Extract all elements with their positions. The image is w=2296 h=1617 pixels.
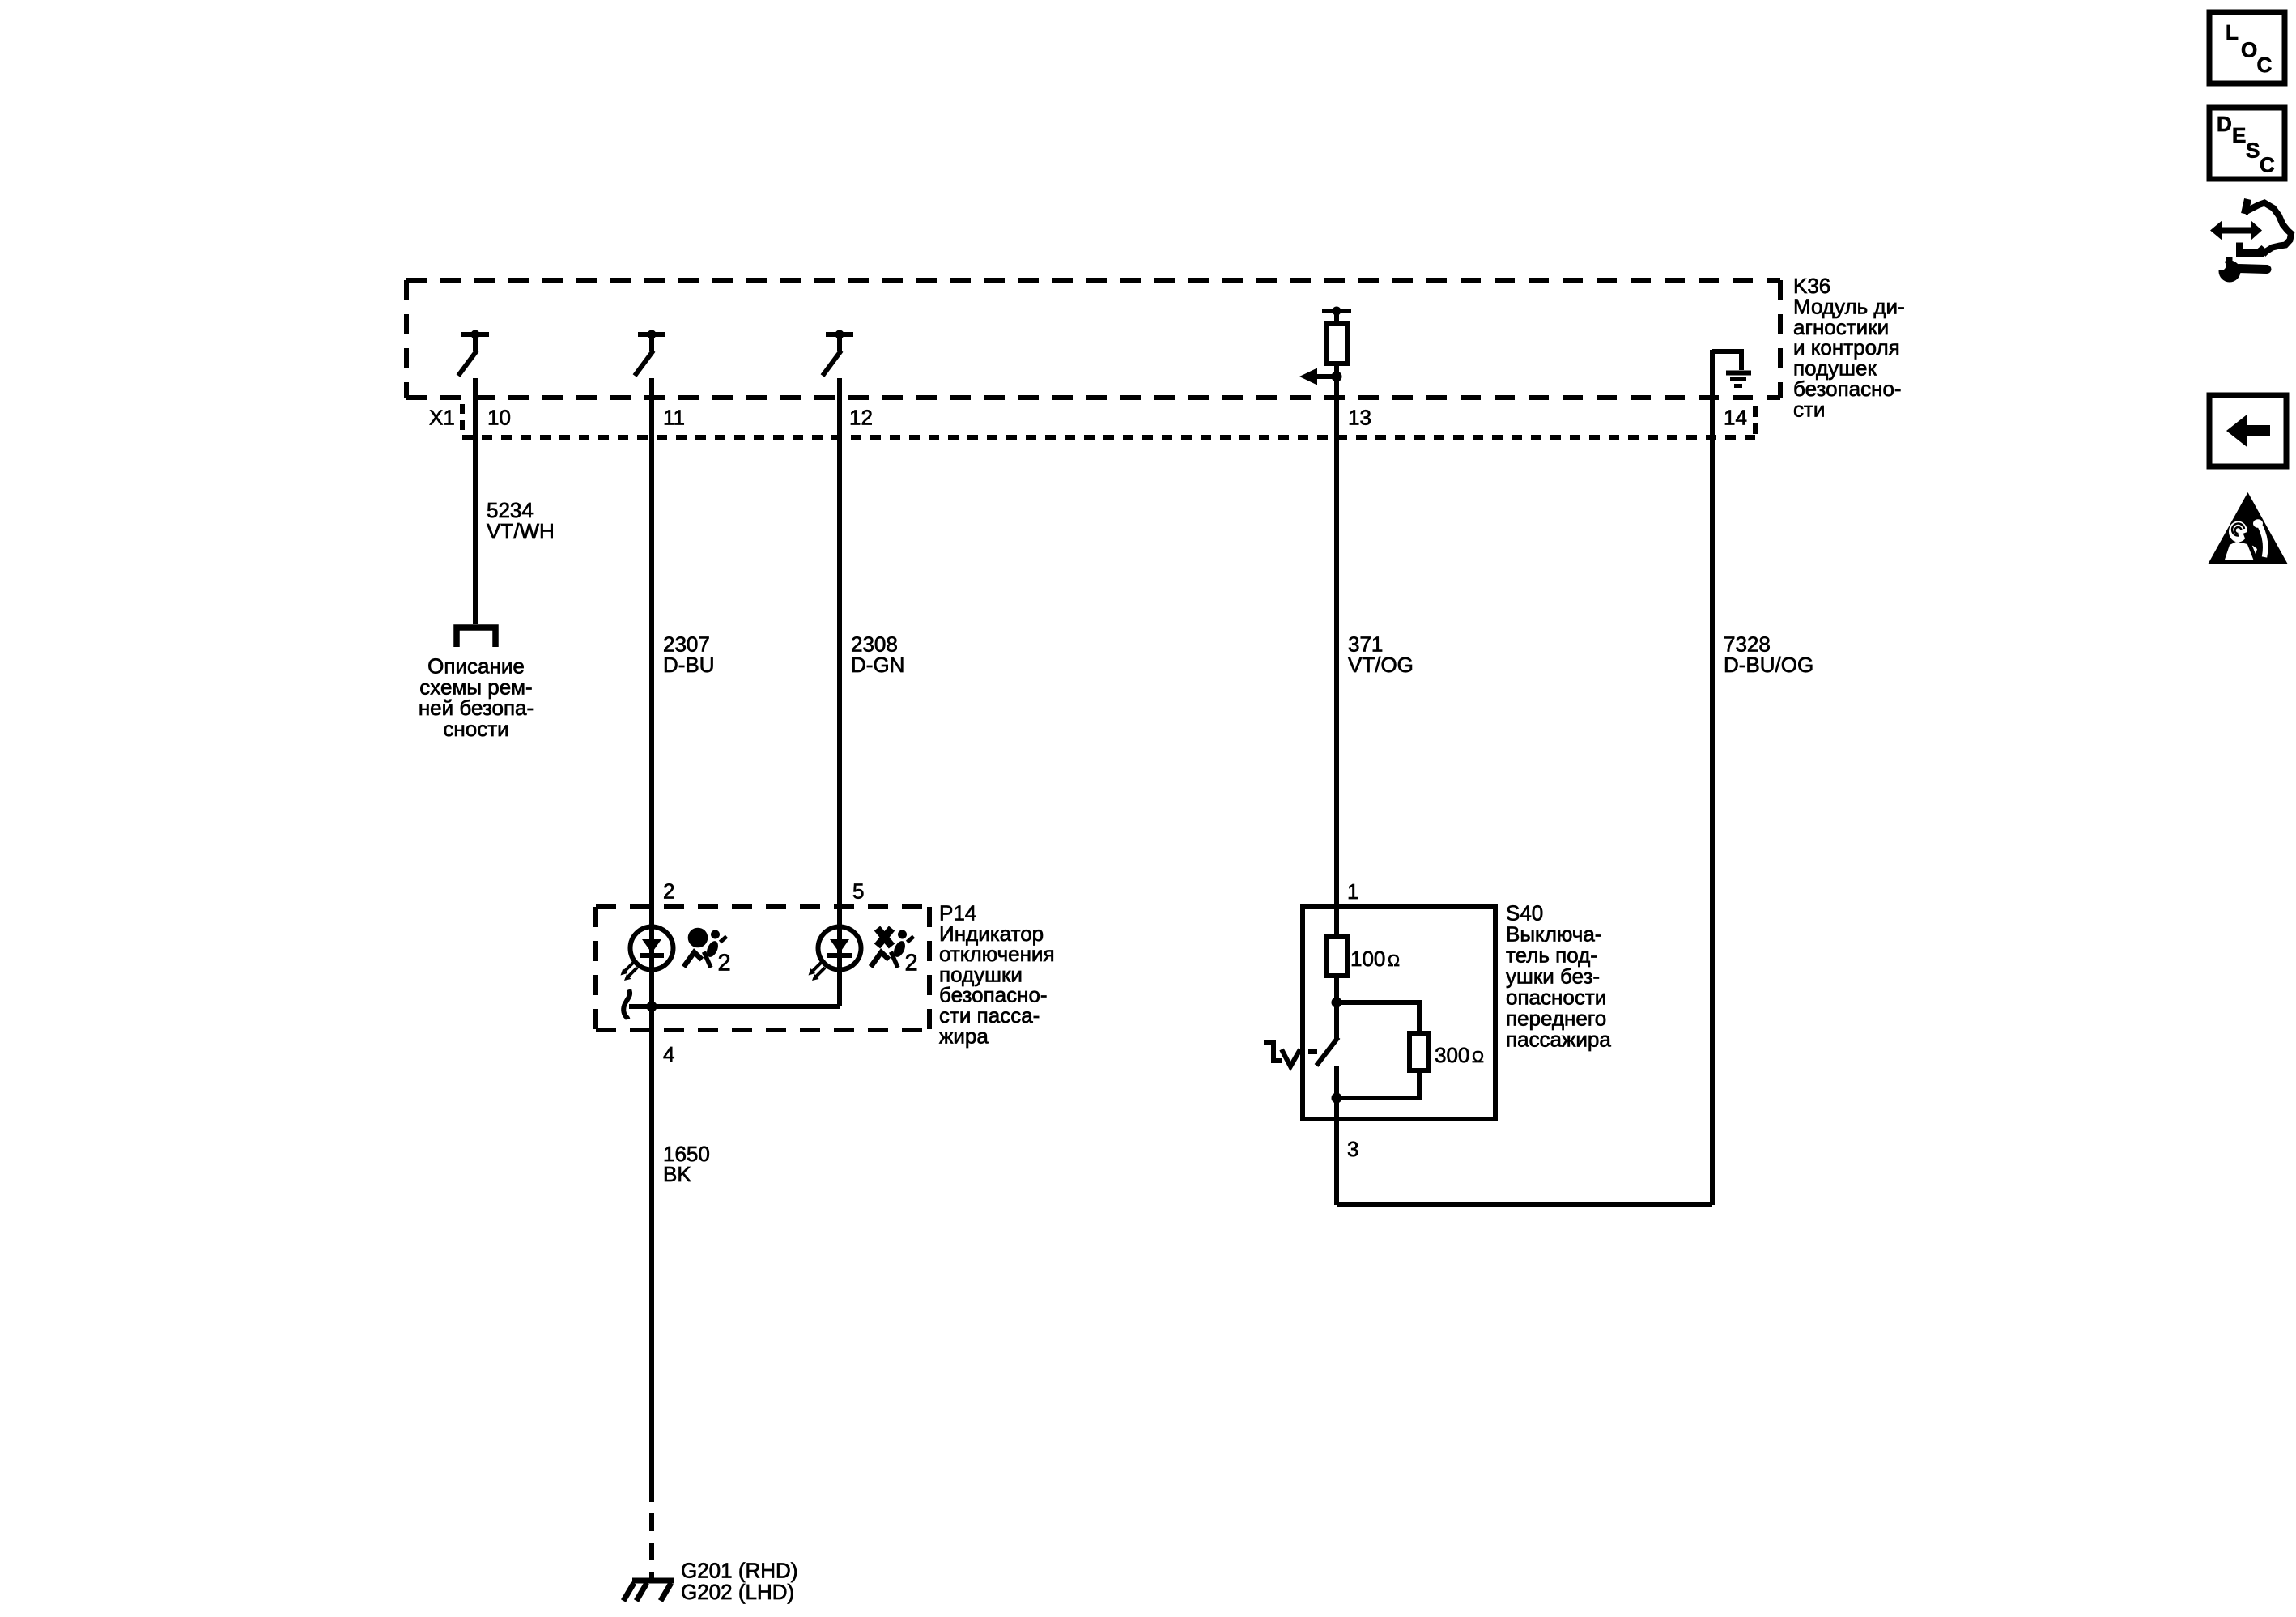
- svg-text:пассажира: пассажира: [1506, 1028, 1611, 1052]
- svg-text:Ω: Ω: [1388, 952, 1400, 970]
- svg-text:2: 2: [905, 951, 918, 977]
- wire P14 pin 4 to ground: [649, 1006, 654, 1502]
- svg-text:2: 2: [718, 951, 731, 977]
- svg-text:сти: сти: [1793, 397, 1825, 421]
- wire junction bus inside P14: [629, 1004, 840, 1009]
- icon LOC box: [2209, 12, 2285, 83]
- label wire 5234 VT/WH: [487, 498, 555, 543]
- K36 internal switch pin 11: [635, 330, 665, 377]
- wire 100 ohm to junction: [1334, 976, 1339, 1002]
- svg-text:D: D: [2217, 112, 2232, 136]
- module K36 dashed box: [406, 280, 1780, 398]
- label P14 description: [939, 901, 1055, 1049]
- LED lamp 2 in P14: [809, 927, 861, 981]
- svg-text:1: 1: [1347, 879, 1358, 904]
- label wire 2308 D-GN: [851, 632, 904, 678]
- label wire 1650 BK: [663, 1142, 710, 1186]
- icon airbag warning triangle: [2208, 492, 2288, 564]
- label wire 2307 D-BU: [663, 632, 715, 678]
- svg-text:3: 3: [1347, 1137, 1358, 1161]
- airbag pictograph 1: [684, 928, 731, 977]
- airbag pictograph 2 crossed out: [871, 929, 918, 977]
- label K36 description: [1793, 274, 1905, 421]
- svg-text:2: 2: [663, 879, 674, 904]
- svg-text:O: O: [2241, 38, 2257, 62]
- wire pin11 to LED P14 pin 2: [649, 378, 654, 1006]
- svg-text:L: L: [2226, 20, 2239, 45]
- svg-text:300: 300: [1435, 1043, 1469, 1067]
- label 100 ohm: [1350, 947, 1400, 971]
- node junction dot upper S40: [1332, 998, 1342, 1008]
- K36 internal ground symbol on pin 14: [1712, 351, 1751, 386]
- ground symbol G201/G202: [623, 1581, 674, 1601]
- pin number labels: [487, 406, 1747, 430]
- wire 300 ohm return to lower junction: [1337, 1070, 1419, 1098]
- manual actuator symbol of S40: [1264, 1042, 1300, 1066]
- svg-text:VT/OG: VT/OG: [1348, 653, 1414, 677]
- svg-text:100: 100: [1350, 947, 1385, 971]
- svg-text:10: 10: [487, 406, 511, 430]
- svg-text:X1: X1: [429, 406, 455, 430]
- svg-text:5: 5: [852, 879, 864, 904]
- icon back arrow box: [2209, 395, 2286, 466]
- node junction dot lower S40: [1332, 1093, 1342, 1104]
- K36 internal switch pin 12: [823, 330, 853, 377]
- svg-text:C: C: [2257, 53, 2273, 77]
- svg-text:D-BU: D-BU: [663, 653, 715, 677]
- svg-text:G201 (RHD): G201 (RHD): [681, 1558, 797, 1582]
- svg-text:11: 11: [663, 406, 685, 430]
- svg-text:D-GN: D-GN: [851, 653, 904, 677]
- icon service wrench: [2217, 257, 2268, 283]
- K36 internal resistor on pin 13: [1322, 307, 1351, 364]
- label S40 description: [1506, 901, 1611, 1052]
- svg-text:S: S: [2246, 138, 2260, 163]
- label ground G201 (RHD) G202 (LHD): [681, 1558, 797, 1604]
- wire pin13 to S40 pin 1: [1334, 364, 1339, 937]
- resistor 100 ohm in S40: [1327, 937, 1347, 976]
- resistor 300 ohm in S40: [1409, 1033, 1429, 1070]
- label wire 371 VT/OG: [1348, 632, 1414, 678]
- wire bottom loop to pin 14: [1337, 1202, 1712, 1207]
- wire pin10 to seat belt reference: [473, 378, 478, 624]
- icon service band bottom bar: [2236, 243, 2265, 257]
- icon service double arrow: [2210, 220, 2262, 240]
- K36 internal switch pin 10: [458, 330, 489, 377]
- wire S40 pin 3 down: [1334, 1098, 1339, 1205]
- wire branch to 300 ohm: [1337, 1002, 1419, 1033]
- dashed wire continuation to ground: [649, 1513, 654, 1581]
- svg-text:14: 14: [1724, 406, 1747, 430]
- node junction with left arrow on pin 13: [1299, 368, 1342, 385]
- svg-text:VT/WH: VT/WH: [487, 519, 555, 543]
- curl symbol at P14 junction: [623, 989, 630, 1019]
- svg-text:BK: BK: [663, 1162, 691, 1186]
- switch contact in S40: [1308, 1002, 1338, 1098]
- svg-text:сности: сности: [443, 717, 508, 741]
- svg-text:D-BU/OG: D-BU/OG: [1724, 653, 1813, 677]
- svg-text:12: 12: [849, 406, 873, 430]
- connector X1 dotted line: [462, 404, 1755, 439]
- indicator P14 dashed box: [596, 907, 929, 1030]
- wire pin14 to S40 loop: [1710, 350, 1715, 1205]
- switch S40 solid box: [1303, 907, 1495, 1119]
- wire pin12 to LED P14 pin 5: [837, 378, 842, 1006]
- svg-text:Ω: Ω: [1472, 1049, 1484, 1066]
- icon service band outline: [2245, 199, 2248, 214]
- svg-text:G202 (LHD): G202 (LHD): [681, 1580, 794, 1604]
- svg-text:13: 13: [1348, 406, 1371, 430]
- node junction dot P14: [647, 1002, 657, 1012]
- svg-text:жира: жира: [939, 1023, 989, 1048]
- svg-text:C: C: [2260, 152, 2275, 177]
- label 300 ohm: [1435, 1043, 1484, 1067]
- LED lamp 1 in P14: [621, 927, 674, 981]
- off-page connector staple: [457, 628, 495, 647]
- label seat belt circuit reference: [419, 654, 534, 741]
- svg-text:4: 4: [663, 1042, 674, 1066]
- label wire 7328 D-BU/OG: [1724, 632, 1813, 678]
- icon DESC box: [2209, 108, 2285, 179]
- svg-text:E: E: [2232, 123, 2246, 147]
